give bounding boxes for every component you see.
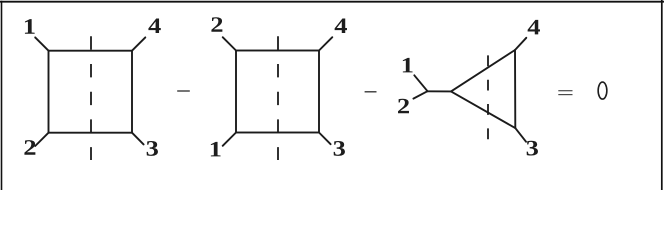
box B2 loop [236, 51, 319, 133]
B2 leg to 1 [223, 133, 236, 146]
T label 2 [398, 99, 409, 114]
B1 label 2 [24, 140, 35, 155]
T right edge [514, 50, 516, 128]
T label 1 [403, 58, 413, 73]
equals sign [558, 90, 572, 92]
result 0 [598, 82, 607, 99]
T label 4 [528, 20, 540, 34]
triangle diagram T [413, 38, 526, 142]
B1 label 3 [147, 141, 158, 156]
B1 leg to 4 [132, 37, 145, 50]
T leg to 2 [413, 91, 427, 98]
B1 label 4 [148, 19, 160, 33]
B2 label 1 [211, 142, 221, 157]
B2 leg to 4 [319, 37, 332, 50]
B1 unitarity cut (dashed) [90, 36, 92, 160]
T leg to 4 [515, 38, 526, 50]
B2 leg to 3 [319, 133, 331, 145]
T unitarity cut (dashed) [487, 55, 489, 139]
box diagram B2 [223, 37, 333, 146]
B1 leg to 3 [132, 133, 144, 145]
B2 label 2 [211, 17, 222, 32]
B1 leg to 1 [35, 37, 48, 50]
T label 3 [527, 141, 538, 156]
minus sign 1 [177, 90, 190, 92]
B2 label 4 [335, 19, 347, 33]
T bridge line [428, 90, 452, 92]
T leg to 1 [414, 75, 427, 91]
B1 leg to 2 [35, 133, 48, 146]
frame left border [1, 1, 3, 190]
B1 label 1 [25, 19, 35, 34]
B2 unitarity cut (dashed) [277, 36, 279, 160]
B2 label 3 [334, 141, 345, 156]
box B1 loop [49, 51, 133, 133]
B2 leg to 2 [223, 37, 236, 50]
minus sign 2 [365, 91, 377, 93]
T upper edge [451, 50, 515, 91]
frame right border [661, 0, 663, 190]
frame top border [0, 1, 664, 3]
T leg to 3 [515, 128, 526, 142]
T lower edge [451, 91, 515, 128]
box diagram B1 [35, 37, 145, 146]
